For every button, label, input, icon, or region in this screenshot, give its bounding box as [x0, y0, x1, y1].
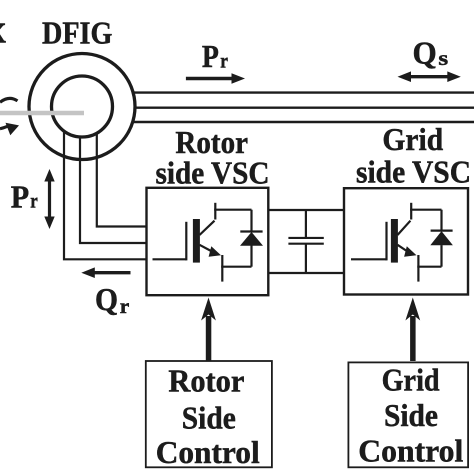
label Rotor side VSC [156, 124, 270, 190]
rotation arrow around shaft [0, 98, 18, 102]
label Rotor Side Control [156, 363, 260, 470]
emitter/output vertical [417, 255, 419, 282]
svg-text:Side: Side [384, 397, 438, 433]
svg-text:Grid: Grid [382, 362, 440, 398]
wire rotor lead 3 [97, 134, 147, 227]
label Grid Side Control [358, 362, 463, 469]
wire rotor lead 2 [80, 137, 147, 244]
svg-text:Q: Q [413, 34, 437, 70]
body bar [193, 219, 200, 263]
emitter rail [417, 266, 441, 268]
gate lead [153, 258, 187, 260]
svg-text:DFIG: DFIG [42, 15, 112, 51]
collector diagonal [200, 221, 215, 235]
body bar [391, 219, 398, 263]
emitter arrowhead [209, 246, 221, 256]
emitter/output vertical [221, 255, 223, 282]
label Pr (stator power) [202, 38, 228, 74]
svg-text:r: r [120, 296, 130, 318]
control box rotor side [146, 361, 272, 467]
svg-text:Rotor: Rotor [168, 363, 244, 399]
collector vertical [410, 203, 412, 220]
emitter diagonal [200, 245, 213, 252]
arrow grid control (up) [405, 298, 420, 362]
svg-text:Control: Control [358, 433, 463, 469]
svg-text:side VSC: side VSC [356, 153, 471, 189]
emitter diagonal [398, 245, 408, 252]
gate lead [351, 258, 387, 260]
collector rail [410, 209, 441, 211]
diode D1 (rotor VSC) [240, 210, 263, 267]
converter box rotor side VSC [147, 188, 269, 295]
svg-text:r: r [220, 50, 228, 72]
gate electrode [185, 222, 187, 261]
svg-text:P: P [202, 38, 219, 74]
control box grid side [348, 362, 468, 467]
svg-text:Q: Q [95, 281, 118, 317]
label Grid side VSC [356, 121, 471, 190]
wire DC link bottom rail [268, 272, 344, 274]
svg-text:Side: Side [182, 399, 236, 435]
emitter arrowhead [404, 246, 416, 256]
arrow rotor control (up) [201, 298, 216, 362]
svg-text:side VSC: side VSC [156, 154, 270, 190]
collector vertical [214, 203, 216, 220]
diode D2 (grid VSC) [430, 210, 453, 267]
collector rail [214, 209, 251, 211]
svg-text:P: P [11, 178, 29, 214]
arrow Pr (right) [186, 73, 245, 84]
gate electrode [385, 222, 387, 261]
emitter rail [221, 266, 251, 268]
capacitor C (DC link) [288, 210, 323, 273]
label Pr (rotor power, left) [11, 178, 38, 214]
svg-text:x: x [0, 5, 6, 51]
generator DFIG inner circle [52, 76, 113, 137]
arrow Pr vertical double-headed [44, 169, 54, 229]
converter box grid side VSC [344, 188, 468, 294]
wire rotor lead 1 [64, 131, 147, 260]
svg-text:r: r [30, 191, 38, 213]
arrow Qr (left) [81, 267, 130, 278]
shaft (gray) [0, 111, 84, 115]
svg-text:Control: Control [156, 434, 260, 470]
collector diagonal [398, 221, 411, 235]
wire stator line 1 [132, 91, 474, 93]
svg-text:Grid: Grid [382, 121, 443, 157]
IGBT Q1 (rotor VSC) [153, 203, 252, 282]
wire stator line 2 [134, 106, 474, 108]
wire stator line 3 [132, 121, 474, 123]
label Qr (rotor reactive power) [95, 281, 129, 318]
arrow Qs (double-headed) [398, 71, 461, 82]
IGBT Q2 (grid VSC) [351, 203, 442, 282]
generator DFIG outer circle [29, 54, 135, 160]
wire DC link top rail [268, 209, 344, 211]
svg-text:s: s [438, 48, 448, 70]
label Qs (stator reactive power) [413, 34, 449, 70]
